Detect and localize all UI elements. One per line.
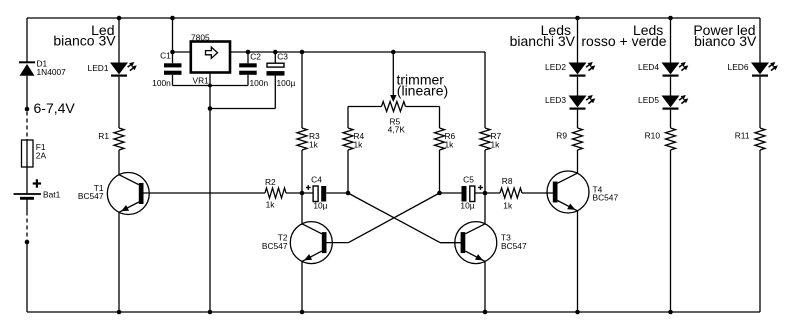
svg-text:LED5: LED5 xyxy=(638,95,659,105)
diode D1 1N4007 xyxy=(19,61,35,63)
capacitor C3 100u electrolytic xyxy=(267,63,284,67)
wire R4 to node xyxy=(347,150,349,193)
wire LED5 to R10 xyxy=(670,110,672,128)
capacitor C1 100n xyxy=(164,63,182,67)
wire R1 to T1 collector xyxy=(118,150,120,175)
wire LED4 to LED5 xyxy=(670,77,672,96)
svg-text:R11: R11 xyxy=(735,131,750,141)
wire left branch lower xyxy=(26,242,28,312)
LED LED2 xyxy=(570,63,586,74)
wire R3 branch upper xyxy=(301,52,303,128)
svg-text:100n: 100n xyxy=(152,78,171,88)
wire 5V corner to R7 xyxy=(484,52,486,128)
LED LED6 xyxy=(752,63,768,74)
wire VR1 branch down xyxy=(172,18,174,63)
wire C4 to node B xyxy=(326,192,348,194)
svg-text:LED3: LED3 xyxy=(545,95,566,105)
junction T4 emitter / bottom rail xyxy=(575,310,580,315)
LED LED4 xyxy=(663,63,679,74)
wire R2 to node A xyxy=(286,192,313,194)
junction VR1 gnd / C3 return xyxy=(208,106,213,111)
junction top rail / LED1 branch xyxy=(117,16,122,21)
svg-text:LED2: LED2 xyxy=(545,62,566,72)
wire R11 to rail xyxy=(759,150,761,312)
wire C3 bottom lead xyxy=(274,76,276,109)
svg-text:C2: C2 xyxy=(250,52,261,62)
resistor R4 1k xyxy=(343,128,353,150)
svg-text:R9: R9 xyxy=(556,131,567,141)
svg-text:BC547: BC547 xyxy=(262,241,288,251)
wire R6 to node xyxy=(439,150,441,193)
node C junction (R6/C5/cross) xyxy=(437,191,442,196)
regulator VR1 7805 box xyxy=(191,42,230,73)
wire R5 right lead xyxy=(406,106,440,108)
wire cross-couple C to T2 base xyxy=(349,193,440,243)
svg-text:6-7,4V: 6-7,4V xyxy=(34,100,76,116)
wire T2 emitter to rail xyxy=(301,261,303,312)
wire LED2 to LED3 xyxy=(577,77,579,96)
svg-text:1k: 1k xyxy=(354,139,364,149)
transistor T3 BC547 xyxy=(455,222,497,264)
svg-text:R10: R10 xyxy=(645,131,661,141)
wire VR1 gnd pin xyxy=(209,73,211,313)
wire D1 to node xyxy=(26,76,28,109)
svg-text:1k: 1k xyxy=(491,139,501,149)
transistor T2 BC547 xyxy=(290,222,332,264)
wire T4 collector xyxy=(577,150,579,174)
svg-text:1k: 1k xyxy=(266,199,276,209)
resistor R3 1k xyxy=(297,128,307,150)
fuse F1 xyxy=(22,140,34,167)
resistor R2 1k xyxy=(265,188,286,198)
wire T1 base to R2 xyxy=(143,192,266,194)
node B junction (C4/R4/cross) xyxy=(346,191,351,196)
capacitor C5 10u xyxy=(462,186,467,202)
LED LED5 xyxy=(663,96,679,107)
wire T2 base xyxy=(327,242,349,244)
junction gnd bus / VR1 gnd xyxy=(208,84,212,88)
wire LED2 branch top xyxy=(577,18,579,63)
svg-text:1N4007: 1N4007 xyxy=(37,67,67,77)
wire T1 emitter to rail xyxy=(118,212,120,312)
wire LED3 to R9 xyxy=(577,110,579,128)
svg-text:2A: 2A xyxy=(36,150,47,160)
svg-text:10µ: 10µ xyxy=(313,200,327,210)
wire C1 to gnd bus xyxy=(172,75,174,86)
wire C3 top lead xyxy=(274,52,276,63)
transistor T4 BC547 xyxy=(547,171,589,213)
junction 5V / trimmer wiper xyxy=(391,50,396,55)
svg-text:1k: 1k xyxy=(309,139,319,149)
svg-text:1k: 1k xyxy=(445,139,455,149)
node battery minus dot xyxy=(25,240,30,245)
svg-text:10µ: 10µ xyxy=(460,200,474,210)
wire T3 collector xyxy=(484,193,486,225)
junction top rail / LED2 branch xyxy=(575,16,580,21)
wire LED6 to R11 xyxy=(759,77,761,128)
junction top rail / VR1 branch xyxy=(170,16,175,21)
svg-text:BC547: BC547 xyxy=(501,241,527,251)
trimmer R5 body xyxy=(382,102,406,112)
wire LED1 branch top xyxy=(118,18,120,63)
wire C5 to node D xyxy=(475,192,500,194)
junction VR1 gnd / bottom rail xyxy=(208,310,213,315)
resistor R1 xyxy=(114,128,124,150)
capacitor C4 10u xyxy=(313,186,318,202)
svg-text:(lineare): (lineare) xyxy=(397,82,448,98)
wire LED4 branch top xyxy=(670,18,672,63)
node 6-7,4V dot xyxy=(25,107,30,112)
svg-text:bianco 3V: bianco 3V xyxy=(694,33,757,49)
svg-text:bianco 3V: bianco 3V xyxy=(53,33,116,49)
junction C2 top xyxy=(246,50,251,55)
svg-text:VR1: VR1 xyxy=(193,76,210,86)
wire right branch top xyxy=(759,18,761,63)
battery Bat1 xyxy=(14,193,42,195)
resistor R7 1k xyxy=(480,128,490,150)
svg-text:Bat1: Bat1 xyxy=(43,190,61,200)
junction VR1 input tee xyxy=(170,50,175,55)
svg-text:bianchi 3V: bianchi 3V xyxy=(510,33,576,49)
arrow inside VR1 xyxy=(206,47,218,58)
junction T3 emitter / bottom rail xyxy=(483,310,488,315)
plus C5 xyxy=(478,187,483,189)
svg-text:LED4: LED4 xyxy=(638,62,659,72)
svg-text:R8: R8 xyxy=(502,176,513,186)
svg-text:R2: R2 xyxy=(265,177,276,187)
wire R7 to node xyxy=(484,150,486,193)
svg-text:BC547: BC547 xyxy=(593,193,619,203)
svg-text:100n: 100n xyxy=(250,78,269,88)
node A junction (R3/C4/T2 collector) xyxy=(300,191,305,196)
svg-text:R1: R1 xyxy=(98,131,109,141)
junction T2 emitter / bottom rail xyxy=(300,310,305,315)
wire T3 emitter to rail xyxy=(484,261,486,312)
wire 5V output line xyxy=(230,51,485,53)
svg-text:1k: 1k xyxy=(503,200,513,210)
wire bottom rail (ground) xyxy=(27,311,760,313)
LED LED3 xyxy=(570,96,586,107)
svg-text:C4: C4 xyxy=(311,175,322,185)
wire gnd bus xyxy=(173,85,249,87)
wire T4 emitter to rail xyxy=(577,211,579,312)
wire dashed battery to node xyxy=(26,212,28,241)
wire node C to C5 xyxy=(440,192,462,194)
node D junction (R7/C5/R8/T3 collector) xyxy=(483,191,488,196)
wire R5 left lead xyxy=(348,106,382,108)
LED LED1 xyxy=(111,63,127,74)
svg-text:C3: C3 xyxy=(277,52,288,62)
junction top rail / LED4 branch xyxy=(668,16,673,21)
resistor R11 xyxy=(755,128,765,150)
wire T2 collector xyxy=(301,193,303,225)
resistor R10 xyxy=(666,128,676,150)
wire T3 base xyxy=(440,242,462,244)
junction T1 emitter / bottom rail xyxy=(117,310,122,315)
svg-text:4,7K: 4,7K xyxy=(388,125,406,135)
resistor R6 1k xyxy=(435,128,445,150)
wire dashed node to fuse xyxy=(26,112,28,140)
wire R10 to rail xyxy=(670,150,672,312)
junction R10 / bottom rail xyxy=(668,310,673,315)
trimmer R5 4,7K wiper arrow xyxy=(392,52,394,96)
wire left branch upper xyxy=(26,18,28,62)
transistor T1 BC547 xyxy=(107,173,149,215)
svg-text:LED1: LED1 xyxy=(88,63,109,73)
wire LED1 to R1 xyxy=(118,77,120,128)
wire VR1 input xyxy=(173,51,191,53)
resistor R8 1k xyxy=(500,188,522,198)
wire top rail (+batt) xyxy=(27,17,760,19)
wire battery down xyxy=(26,198,28,211)
svg-text:rosso + verde: rosso + verde xyxy=(581,33,666,49)
wire C2 top lead xyxy=(247,52,249,63)
wire R3 to node xyxy=(301,150,303,193)
svg-text:BC547: BC547 xyxy=(78,191,104,201)
svg-text:LED6: LED6 xyxy=(728,62,749,72)
svg-text:100µ: 100µ xyxy=(277,78,296,88)
wire C2 bottom lead xyxy=(247,75,249,86)
svg-text:C1: C1 xyxy=(160,51,171,61)
svg-text:C5: C5 xyxy=(463,175,474,185)
wire R8 to T4 base xyxy=(522,192,553,194)
junction C3 top xyxy=(273,50,278,55)
wire cross-couple B to T3 base xyxy=(348,193,440,243)
junction 5V / R3 xyxy=(300,50,305,55)
battery plus sign xyxy=(33,182,41,184)
plus C4 xyxy=(306,187,311,189)
resistor R9 xyxy=(573,128,583,150)
capacitor C2 100n xyxy=(239,63,257,67)
